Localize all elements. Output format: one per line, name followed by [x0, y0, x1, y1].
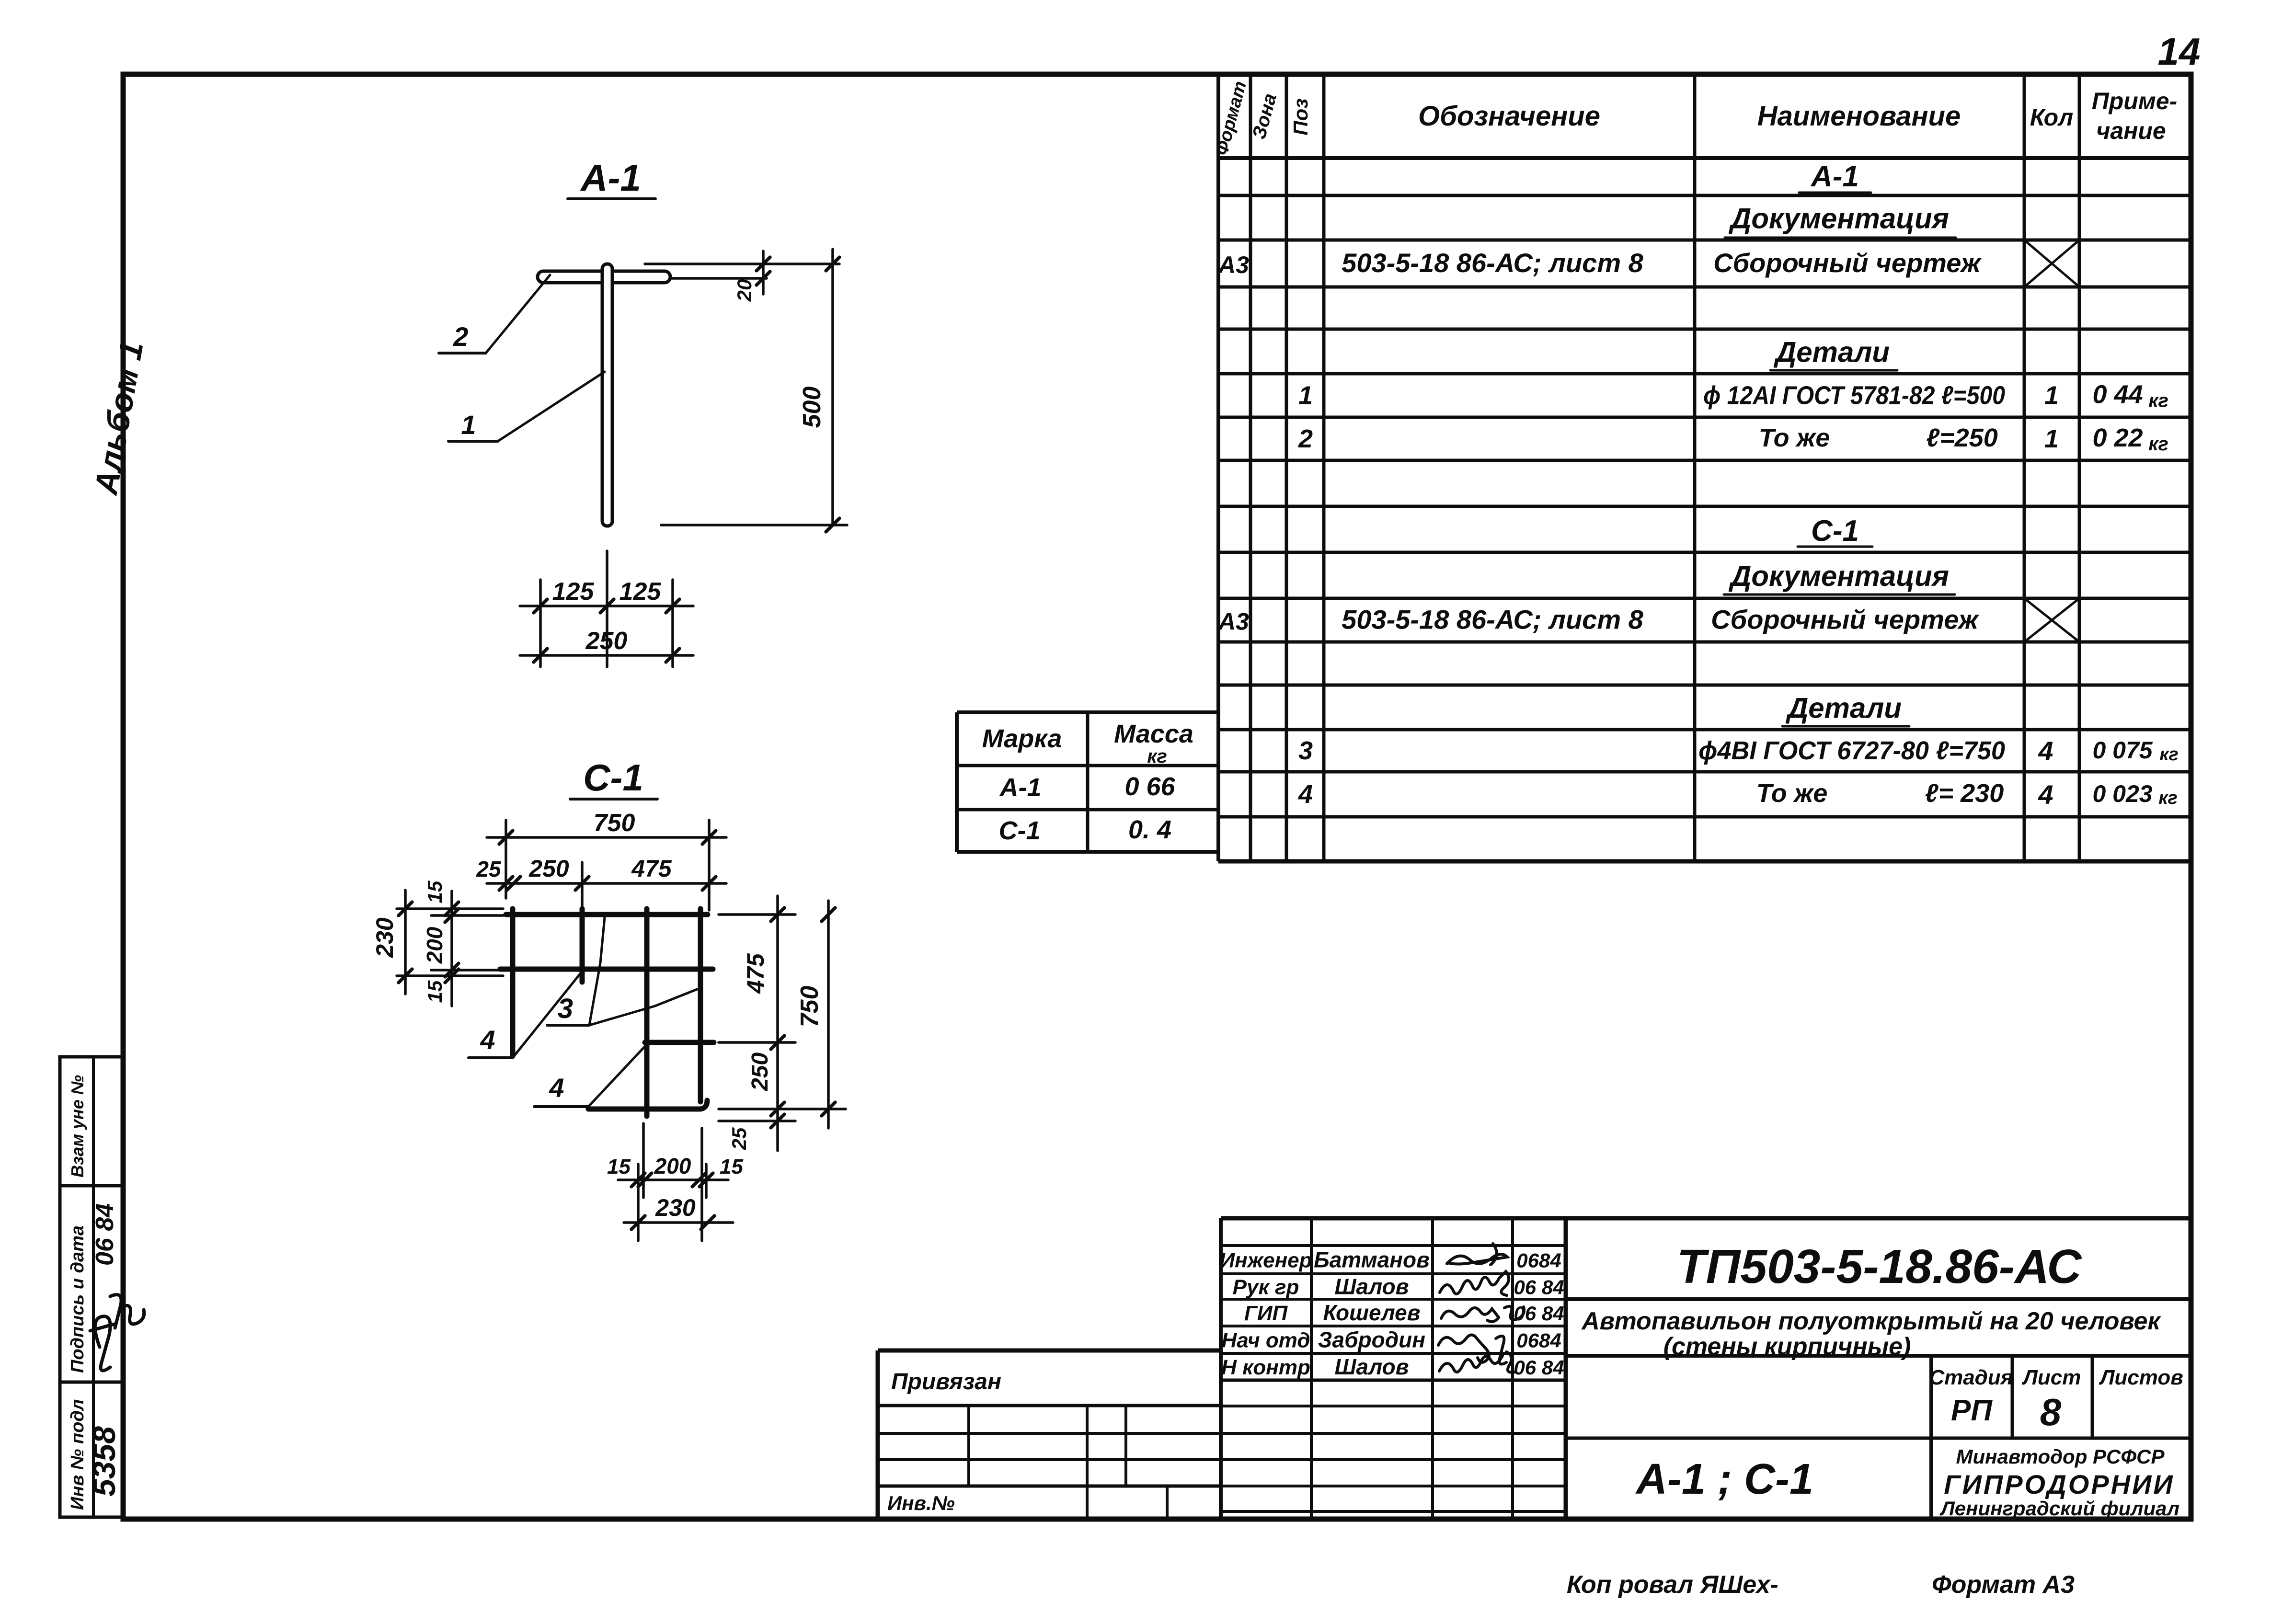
- dim line 125+125: [520, 605, 693, 607]
- svg-text:500: 500: [798, 387, 826, 428]
- svg-text:Обозначение: Обозначение: [1418, 101, 1600, 132]
- handwritten signature in podpis cell: [90, 1295, 144, 1371]
- svg-text:Приме-: Приме-: [2092, 88, 2178, 114]
- svg-text:Сборочный чертеж: Сборочный чертеж: [1711, 605, 1979, 635]
- svg-text:1: 1: [461, 410, 476, 440]
- svg-text:2: 2: [1298, 424, 1313, 453]
- dim line 20 (vertical short): [762, 251, 765, 294]
- svg-text:ТП503-5-18.86-АС: ТП503-5-18.86-АС: [1676, 1240, 2082, 1293]
- C-1 right dim 475/250/25: [719, 913, 795, 916]
- svg-text:ℓ= 230: ℓ= 230: [1925, 779, 2004, 808]
- svg-text:Инв № подл: Инв № подл: [68, 1399, 88, 1510]
- svg-text:4: 4: [480, 1025, 495, 1055]
- svg-text:250: 250: [528, 855, 569, 882]
- svg-text:06 84: 06 84: [1514, 1276, 1564, 1299]
- svg-text:А3: А3: [1217, 608, 1249, 635]
- svg-text:750: 750: [594, 809, 635, 837]
- svg-text:Документация: Документация: [1728, 203, 1949, 235]
- svg-text:ℓ=250: ℓ=250: [1926, 423, 1998, 452]
- svg-text:С-1: С-1: [583, 756, 643, 799]
- svg-text:Батманов: Батманов: [1314, 1247, 1430, 1272]
- svg-text:А-1: А-1: [998, 773, 1041, 802]
- svg-text:кг: кг: [1147, 746, 1167, 767]
- svg-text:ϕ 12АI ГОСТ 5781-82 ℓ=500: ϕ 12АI ГОСТ 5781-82 ℓ=500: [1703, 381, 2005, 410]
- svg-text:Н контр: Н контр: [1221, 1356, 1310, 1379]
- svg-text:Поз: Поз: [1289, 98, 1312, 135]
- svg-text:250: 250: [747, 1052, 773, 1091]
- svg-text:Взам уне №: Взам уне №: [68, 1075, 87, 1178]
- svg-text:А-1: А-1: [1810, 160, 1859, 193]
- svg-text:125: 125: [619, 578, 662, 606]
- svg-text:475: 475: [631, 855, 672, 882]
- dim line 500 (vertical): [831, 249, 834, 525]
- svg-text:Коп ровал ЯШех-: Коп ровал ЯШех-: [1567, 1571, 1778, 1599]
- svg-text:4: 4: [2038, 736, 2053, 766]
- svg-text:кг: кг: [2158, 788, 2178, 808]
- svg-text:То же: То же: [1756, 779, 1828, 808]
- svg-text:Марка: Марка: [982, 724, 1062, 753]
- dim line 250: [520, 654, 693, 657]
- svg-text:4: 4: [2038, 779, 2053, 810]
- svg-text:06 84: 06 84: [1514, 1302, 1564, 1325]
- svg-text:Рук гр: Рук гр: [1233, 1276, 1299, 1299]
- svg-text:2: 2: [453, 321, 468, 352]
- svg-text:ГИПРОДОРНИИ: ГИПРОДОРНИИ: [1944, 1469, 2174, 1499]
- svg-text:8: 8: [2040, 1391, 2062, 1433]
- left margin stamp cells: [60, 1057, 122, 1186]
- svg-text:РП: РП: [1951, 1394, 1993, 1427]
- svg-text:1: 1: [2044, 381, 2059, 410]
- marka/massa table: [957, 710, 1218, 714]
- svg-text:С-1: С-1: [1811, 515, 1859, 548]
- svg-text:Сборочный чертеж: Сборочный чертеж: [1713, 248, 1982, 278]
- svg-text:Документация: Документация: [1728, 560, 1949, 592]
- C-1 top dim 750: [505, 820, 507, 898]
- extension line top (for dim 20/500): [645, 263, 839, 265]
- svg-text:0684: 0684: [1516, 1249, 1561, 1272]
- title block right part: [1566, 1216, 2191, 1221]
- bar 1 vertical (outlined rebar): [602, 264, 612, 526]
- svg-text:06 84: 06 84: [1514, 1356, 1564, 1379]
- svg-text:475: 475: [742, 953, 769, 994]
- svg-text:3: 3: [1298, 736, 1313, 765]
- svg-text:Масса: Масса: [1114, 720, 1193, 748]
- svg-text:Лист: Лист: [2022, 1366, 2081, 1389]
- svg-text:0 22: 0 22: [2092, 423, 2143, 452]
- svg-text:Шалов: Шалов: [1334, 1354, 1409, 1379]
- svg-text:15: 15: [720, 1155, 743, 1178]
- svg-text:4: 4: [549, 1073, 564, 1103]
- svg-text:230: 230: [655, 1194, 696, 1221]
- svg-text:Стадия: Стадия: [1929, 1366, 2013, 1389]
- svg-text:0 075: 0 075: [2092, 737, 2153, 764]
- svg-text:125: 125: [552, 578, 595, 606]
- specification table grid: [1216, 74, 1220, 861]
- svg-text:Ленинградский филиал: Ленинградский филиал: [1939, 1497, 2179, 1520]
- C-1 bottom dims 15/200/15: [642, 1123, 645, 1198]
- svg-text:чание: чание: [2096, 117, 2166, 144]
- signatures squiggles: [1447, 1244, 1507, 1265]
- svg-text:15: 15: [607, 1155, 631, 1178]
- svg-text:750: 750: [796, 986, 824, 1028]
- svg-text:1: 1: [2044, 424, 2059, 453]
- svg-text:0 66: 0 66: [1124, 772, 1175, 801]
- svg-text:Листов: Листов: [2099, 1366, 2183, 1389]
- svg-text:Забродин: Забродин: [1318, 1327, 1425, 1352]
- svg-text:503-5-18 86-АС; лист 8: 503-5-18 86-АС; лист 8: [1342, 605, 1644, 635]
- svg-text:25: 25: [476, 857, 502, 881]
- svg-text:0. 4: 0. 4: [1128, 815, 1171, 844]
- svg-text:25: 25: [728, 1127, 750, 1150]
- svg-text:200: 200: [422, 926, 447, 964]
- svg-text:0 023: 0 023: [2092, 780, 2152, 807]
- svg-text:Формат А3: Формат А3: [1932, 1571, 2075, 1599]
- svg-text:А-1 ; С-1: А-1 ; С-1: [1635, 1455, 1813, 1503]
- svg-text:кг: кг: [2148, 434, 2168, 455]
- svg-text:кг: кг: [2159, 744, 2179, 765]
- C-1 right dim 750: [719, 1108, 846, 1110]
- svg-text:0684: 0684: [1516, 1329, 1561, 1352]
- bar 2 horizontal (outlined rebar): [538, 271, 670, 283]
- svg-text:Нач отд: Нач отд: [1221, 1329, 1310, 1352]
- svg-text:5358: 5358: [86, 1426, 122, 1497]
- svg-text:А-1: А-1: [580, 157, 641, 199]
- svg-text:230: 230: [371, 917, 398, 958]
- svg-text:4: 4: [1298, 780, 1313, 809]
- svg-text:Инв.№: Инв.№: [887, 1492, 955, 1514]
- svg-text:20: 20: [733, 279, 756, 302]
- svg-text:Кошелев: Кошелев: [1323, 1300, 1420, 1325]
- A-1 bottom dims: [539, 580, 542, 667]
- svg-text:1: 1: [1298, 381, 1313, 410]
- svg-text:Автопавильон полуоткрытый на: Автопавильон полуоткрытый на 20 человек: [1581, 1307, 2161, 1335]
- extension line from bar right end: [670, 277, 767, 280]
- C-1 bottom dim 230: [624, 1221, 733, 1224]
- svg-text:15: 15: [424, 980, 446, 1003]
- svg-text:503-5-18 86-АС; лист 8: 503-5-18 86-АС; лист 8: [1342, 248, 1644, 278]
- C-1 left dim 15/200/15: [431, 914, 503, 917]
- bottom extension line of 500: [661, 524, 847, 526]
- svg-text:200: 200: [654, 1154, 691, 1178]
- signature table: [1221, 1216, 1566, 1221]
- svg-text:Минавтодор РСФСР: Минавтодор РСФСР: [1956, 1445, 2165, 1468]
- svg-text:14: 14: [2158, 30, 2201, 73]
- svg-text:То же: То же: [1759, 423, 1830, 452]
- X cross kol: [2024, 240, 2079, 287]
- svg-text:15: 15: [424, 881, 446, 903]
- C-1 left dim 230: [397, 907, 503, 910]
- svg-text:Наименование: Наименование: [1757, 101, 1961, 132]
- svg-text:Кол: Кол: [2030, 104, 2073, 131]
- svg-text:(стены кирпичные): (стены кирпичные): [1663, 1333, 1911, 1361]
- svg-text:0 44: 0 44: [2092, 380, 2143, 409]
- privyazan box: [878, 1349, 1221, 1353]
- svg-text:Инженер: Инженер: [1219, 1249, 1312, 1272]
- svg-text:Шалов: Шалов: [1334, 1274, 1409, 1299]
- svg-text:А3: А3: [1217, 252, 1249, 278]
- svg-text:Детали: Детали: [1785, 692, 1902, 724]
- svg-text:Привязан: Привязан: [891, 1369, 1001, 1395]
- svg-text:06 84: 06 84: [91, 1203, 119, 1266]
- svg-text:ГИП: ГИП: [1244, 1302, 1288, 1325]
- svg-text:Подпись и дата: Подпись и дата: [68, 1225, 88, 1373]
- svg-text:кг: кг: [2148, 390, 2168, 412]
- svg-text:С-1: С-1: [998, 816, 1040, 845]
- svg-text:250: 250: [585, 627, 628, 655]
- svg-text:Детали: Детали: [1773, 336, 1890, 368]
- C-1 dim 25/250/475: [581, 862, 584, 910]
- svg-text:ϕ4ВI ГОСТ 6727-80 ℓ=750: ϕ4ВI ГОСТ 6727-80 ℓ=750: [1698, 736, 2005, 765]
- C-1 mesh bars: [506, 912, 708, 917]
